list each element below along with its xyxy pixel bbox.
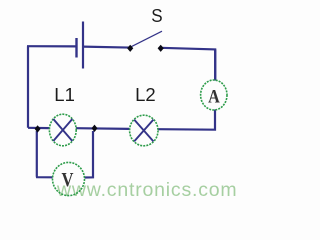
svg-text:L1: L1: [54, 84, 75, 105]
svg-text:S: S: [151, 5, 162, 26]
svg-text:V: V: [62, 169, 74, 191]
svg-text:L2: L2: [135, 84, 156, 105]
svg-text:A: A: [208, 85, 220, 107]
svg-text:www.cntronics.com: www.cntronics.com: [56, 179, 237, 201]
